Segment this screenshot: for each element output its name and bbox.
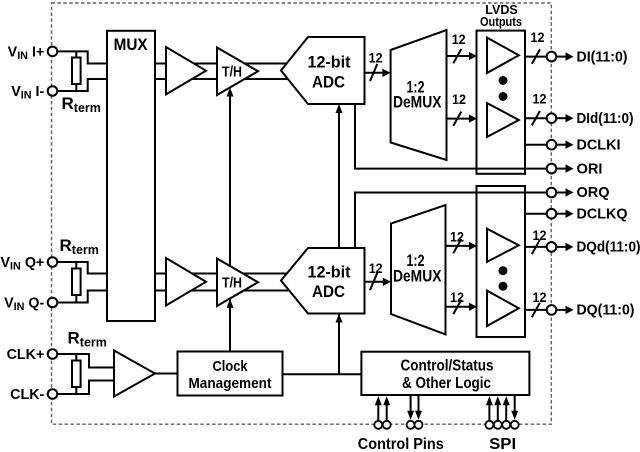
mux U1	[107, 31, 155, 321]
wire: clock to ADC I and ADC Q (vertical behind ADC Q)	[283, 106, 362, 374]
svg-text:12: 12	[531, 30, 545, 45]
arrowhead: clock into ADC I	[336, 104, 343, 113]
svg-text:DQ(11:0): DQ(11:0)	[577, 302, 635, 319]
track-and-hold U2 (T/H I)	[217, 48, 258, 96]
wire: ORI from ADC I to pin	[355, 104, 547, 169]
svg-text:ORQ: ORQ	[577, 184, 610, 201]
control pin circle 3	[407, 421, 415, 429]
lvds buffer B1	[487, 38, 519, 73]
clock management block U10	[178, 352, 283, 396]
wire: resistor R1 leads	[75, 51, 77, 91]
amplifier A1 (I channel buffer)	[166, 47, 206, 94]
SPI: up arrow 3	[505, 402, 507, 421]
control pins: up arrow 2	[386, 402, 388, 421]
bus: LVDS to DI pin, 12	[525, 56, 547, 58]
arrowhead: clock into T/H Q	[227, 299, 234, 308]
bus: DeMUX Q bottom to LVDS, 12	[446, 306, 471, 308]
svg-text:T/H: T/H	[222, 63, 242, 80]
wire: resistor R2 leads	[75, 262, 77, 303]
track-and-hold U3 (T/H Q)	[217, 259, 258, 307]
svg-text:DId(11:0): DId(11:0)	[577, 110, 634, 127]
svg-text:12: 12	[450, 229, 464, 244]
svg-text:Management: Management	[189, 375, 272, 392]
control pin circle 2	[383, 421, 391, 429]
pin DI(11:0) with arrow	[547, 52, 557, 62]
resistor R1 Rterm (I input)	[72, 58, 81, 85]
pin DQd(11:0) with arrow	[547, 242, 557, 252]
bus: DeMUX I top to LVDS, 12	[447, 55, 471, 57]
svg-text:DI(11:0): DI(11:0)	[577, 48, 628, 65]
pin DCLKI with arrow	[547, 140, 557, 150]
pin ORQ with arrow	[547, 188, 557, 198]
svg-text:DeMUX: DeMUX	[393, 266, 442, 285]
wire: resistor R3 leads	[75, 354, 77, 394]
wire: ORQ from ADC Q to pin	[355, 193, 547, 249]
demux U7 (1:2 DeMUX Q)	[391, 205, 446, 334]
control pin circle 4	[415, 421, 423, 429]
svg-text:ORI: ORI	[577, 160, 603, 177]
adc U4 (12-bit ADC I)	[281, 37, 365, 104]
svg-text:DeMUX: DeMUX	[393, 93, 442, 112]
bus: LVDS to DQ pin, 12	[525, 309, 547, 311]
svg-text:DCLKI: DCLKI	[577, 136, 621, 153]
SPI pin circle 4	[511, 421, 519, 429]
svg-text:CLK-: CLK-	[10, 387, 44, 403]
SPI: up arrow 2	[497, 402, 499, 421]
svg-text:12: 12	[533, 228, 547, 243]
svg-text:12: 12	[450, 290, 464, 305]
svg-text:12-bit: 12-bit	[308, 53, 351, 72]
bus: LVDS to DQd pin, 12	[525, 246, 547, 248]
svg-text:DCLKQ: DCLKQ	[577, 205, 628, 222]
svg-text:CLK+: CLK+	[7, 347, 45, 363]
wire: Q channel differential pair MUX to ADC	[155, 274, 288, 291]
wire: I channel differential pair MUX to ADC	[155, 64, 288, 80]
arrowhead: clock into ADC Q	[336, 314, 343, 323]
pin CLK-	[48, 389, 58, 399]
arrowhead: clock into T/H I	[227, 88, 234, 97]
demux U6 (1:2 DeMUX I)	[391, 30, 447, 160]
lvds buffer B3	[487, 229, 519, 262]
svg-text:Clock: Clock	[213, 358, 249, 375]
resistor R3 Rterm (clock input)	[72, 361, 81, 388]
bus: ADC I to DeMUX I, 12	[365, 72, 384, 74]
wire: VIN Q+ input jog	[53, 262, 108, 274]
bus: DeMUX I bottom to LVDS, 12	[447, 118, 471, 120]
pin ORI with arrow	[547, 164, 557, 174]
svg-text:Outputs: Outputs	[480, 15, 522, 29]
wire: VIN I- input jog	[53, 79, 108, 91]
control/status block U11	[361, 352, 529, 395]
control pin circle 1	[374, 421, 382, 429]
svg-text:12: 12	[369, 51, 383, 66]
svg-text:VIN Q-: VIN Q-	[4, 296, 44, 314]
bus: DeMUX Q top to LVDS, 12	[446, 245, 471, 247]
svg-text:12: 12	[369, 261, 383, 276]
amplifier A3 (clock buffer)	[114, 351, 155, 397]
svg-text:DQd(11:0): DQd(11:0)	[577, 239, 640, 256]
control pins: down arrow 2	[418, 395, 420, 413]
ellipsis dots (I)	[499, 76, 508, 85]
wire: CLK amp to clock management	[155, 373, 178, 375]
lvds output block U8 (I)	[477, 31, 526, 174]
pin VIN Q-	[48, 298, 58, 308]
wire: CLK+ input jog	[53, 354, 115, 368]
svg-text:& Other Logic: & Other Logic	[402, 375, 491, 392]
bus: LVDS to DId pin, 12	[525, 117, 547, 119]
ellipsis dots (Q)	[499, 266, 508, 275]
pin DQ(11:0) with arrow	[547, 305, 557, 315]
SPI: down arrow	[514, 395, 516, 413]
pin VIN I-	[48, 86, 58, 96]
chip boundary dashed border	[52, 3, 552, 424]
pin VIN Q+	[48, 257, 58, 267]
wire: VIN I+ input jog	[53, 51, 108, 63]
adc U5 (12-bit ADC Q)	[281, 248, 365, 314]
lvds output block U9 (Q)	[477, 186, 526, 337]
pin VIN I+	[48, 47, 58, 57]
svg-text:ADC: ADC	[312, 282, 345, 301]
svg-text:MUX: MUX	[114, 35, 149, 54]
svg-text:12: 12	[533, 92, 547, 107]
SPI pin circle 1	[485, 421, 493, 429]
bus: ADC Q to DeMUX Q, 12	[365, 281, 384, 283]
wire: clock to T/H I and T/H Q (vertical behind T/H Q)	[229, 90, 231, 352]
wire: CLK- input jog	[53, 381, 115, 395]
lvds buffer B4	[487, 291, 519, 326]
lvds buffer B2	[487, 103, 519, 137]
wire: VIN Q- input jog	[53, 291, 108, 303]
svg-text:ADC: ADC	[312, 73, 345, 92]
svg-text:12: 12	[452, 92, 466, 107]
wire: DCLKQ from LVDS Q to pin	[525, 213, 547, 215]
SPI pin circle 2	[494, 421, 502, 429]
svg-text:Control/Status: Control/Status	[401, 357, 494, 374]
svg-text:T/H: T/H	[222, 275, 242, 292]
svg-text:12-bit: 12-bit	[308, 263, 351, 282]
control pins: up arrow 1	[377, 402, 379, 421]
wire: DCLKI from LVDS I to pin	[525, 144, 547, 146]
pin CLK+	[48, 349, 58, 359]
svg-text:SPI: SPI	[489, 436, 516, 452]
control pins: down arrow 1	[410, 395, 412, 413]
pin DCLKQ with arrow	[547, 209, 557, 219]
SPI pin circle 3	[502, 421, 510, 429]
svg-text:12: 12	[452, 32, 466, 47]
svg-text:12: 12	[533, 290, 547, 305]
SPI: up arrow 1	[488, 402, 490, 421]
resistor R2 Rterm (Q input)	[72, 269, 81, 296]
svg-text:VIN Q+: VIN Q+	[0, 255, 44, 273]
pin DId(11:0) with arrow	[547, 113, 557, 123]
svg-text:Control Pins: Control Pins	[358, 436, 444, 452]
amplifier A2 (Q channel buffer)	[166, 258, 206, 306]
